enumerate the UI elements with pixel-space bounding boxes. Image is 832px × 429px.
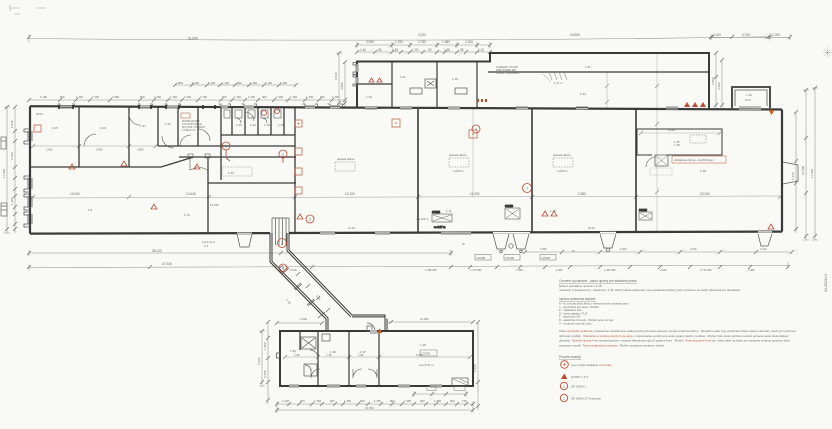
- svg-text:1.400: 1.400: [250, 81, 257, 85]
- svg-text:10.9: 10.9: [745, 98, 751, 102]
- svg-text:1.760: 1.760: [200, 95, 207, 99]
- svg-text:1.400: 1.400: [222, 81, 229, 85]
- svg-text:1.465 180: 1.465 180: [604, 268, 616, 272]
- small gray details: [210, 203, 595, 253]
- svg-text:900: 900: [360, 399, 365, 403]
- svg-text:C022B: C022B: [639, 208, 647, 212]
- svg-text:1.100: 1.100: [234, 95, 241, 99]
- main building outer walls: [30, 106, 782, 233]
- dimension labels top: [188, 33, 780, 52]
- svg-text:2.380: 2.380: [112, 95, 119, 99]
- svg-text:1: 1: [563, 384, 565, 388]
- svg-text:2.660: 2.660: [46, 148, 53, 152]
- svg-text:1.400: 1.400: [184, 95, 191, 99]
- red triangles row near hall 3 top: [684, 102, 706, 107]
- svg-text:6.270: 6.270: [416, 353, 423, 357]
- svg-text:obmedzi - Montaz opravy 4 sa v: obmedzi - Montaz opravy 4 sa vyrobnej pl…: [559, 339, 790, 343]
- svg-text:1.41: 1.41: [250, 123, 256, 127]
- hall divider walls: [418, 109, 636, 233]
- svg-text:C022B: C022B: [506, 256, 515, 260]
- svg-text:1.100: 1.100: [208, 81, 215, 85]
- annex corner hatch box: [452, 378, 468, 386]
- svg-text:1.100: 1.100: [290, 95, 297, 99]
- svg-text:cca 97 m: cca 97 m: [453, 169, 465, 173]
- red annotation text block bottom right: [559, 279, 741, 325]
- dimension line: wing upper row: [355, 42, 492, 48]
- svg-text:1.07: 1.07: [140, 124, 146, 128]
- svg-text:21.050: 21.050: [420, 317, 429, 321]
- dimension line: top-right segments: [709, 34, 792, 40]
- svg-text:16.580: 16.580: [570, 33, 580, 37]
- svg-text:5.465: 5.465: [473, 364, 477, 372]
- svg-text:Pouzite znacky:: Pouzite znacky:: [559, 355, 581, 359]
- room number labels: [36, 65, 752, 367]
- svg-text:2.400: 2.400: [620, 247, 627, 251]
- top wall window openings: [60, 106, 761, 109]
- wing outer walls: [357, 53, 709, 108]
- svg-text:38.120: 38.120: [152, 249, 162, 253]
- svg-text:900: 900: [420, 399, 425, 403]
- red triangle markers on walls: [69, 110, 775, 333]
- svg-text:2.940: 2.940: [366, 40, 374, 44]
- svg-text:1.8: 1.8: [88, 208, 93, 212]
- svg-text:POZOR NA SIET: POZOR NA SIET: [182, 120, 200, 123]
- svg-text:23.100: 23.100: [700, 192, 710, 196]
- svg-text:obkladova dielna - cca 500 pra: obkladova dielna - cca 500 prac: [674, 158, 714, 162]
- svg-text:900: 900: [60, 95, 65, 99]
- svg-text:1.43: 1.43: [278, 123, 284, 127]
- left margin small symbols: [1, 137, 7, 216]
- bottom dimension labels: [70, 192, 767, 272]
- hatched door boxes in halls: [432, 208, 652, 222]
- dimension line: mid window row: [173, 83, 298, 87]
- svg-text:13.440: 13.440: [70, 192, 80, 196]
- svg-text:2.100: 2.100: [290, 268, 297, 272]
- svg-text:47.040: 47.040: [162, 262, 172, 266]
- svg-text:C022B: C022B: [542, 256, 551, 260]
- svg-text:900: 900: [262, 95, 267, 99]
- svg-text:1.450: 1.450: [434, 399, 441, 403]
- svg-text:1.4: 1.4: [204, 244, 208, 248]
- svg-text:90: 90: [428, 48, 432, 52]
- svg-text:1.200: 1.200: [263, 342, 267, 350]
- svg-text:OSADIT ZARUBNU: OSADIT ZARUBNU: [496, 71, 519, 75]
- svg-text:1: 1: [563, 396, 565, 400]
- svg-text:23.10: 23.10: [588, 226, 595, 230]
- svg-text:1.21: 1.21: [400, 75, 406, 79]
- svg-text:2.400: 2.400: [556, 268, 563, 272]
- legend item 2 triangle: [561, 374, 588, 380]
- svg-text:95: 95: [460, 48, 464, 52]
- window on wing west wall: [356, 64, 358, 84]
- svg-text:1.48: 1.48: [700, 169, 706, 173]
- svg-text:1.06: 1.06: [100, 126, 106, 130]
- corridor walls: [270, 233, 387, 332]
- mid section walls: [179, 107, 296, 233]
- svg-text:2.100: 2.100: [10, 152, 14, 160]
- svg-text:2.550: 2.550: [578, 192, 586, 196]
- svg-text:2.140: 2.140: [760, 247, 767, 251]
- svg-text:51.540: 51.540: [188, 37, 198, 41]
- svg-text:spravnom vyrobil. Tento nezabu: spravnom vyrobil. Tento nezabudnut oprav…: [559, 343, 665, 347]
- dimension labels mid rows: [40, 81, 339, 99]
- vertical dimension left of wing: [336, 51, 347, 107]
- svg-text:1.30: 1.30: [228, 171, 234, 175]
- annex fixtures: [301, 334, 330, 376]
- svg-text:1.465 180: 1.465 180: [425, 268, 437, 272]
- hall4 inner rect dim: [639, 128, 722, 144]
- svg-text:C022B: C022B: [505, 204, 513, 208]
- svg-text:1.050: 1.050: [540, 247, 547, 251]
- interior halls dimension chain: [31, 195, 782, 199]
- svg-text:OK W200 1T hmotnosti: OK W200 1T hmotnosti: [571, 397, 601, 401]
- svg-text:1.37: 1.37: [360, 350, 366, 354]
- hall 4 interior room: [637, 129, 722, 175]
- door jambs on top wall: [59, 105, 215, 109]
- annex entry door: [367, 323, 377, 334]
- svg-text:4.700: 4.700: [742, 33, 750, 37]
- vertical dimension right of wing: [714, 51, 724, 109]
- svg-text:1.100: 1.100: [92, 95, 99, 99]
- C022B boxes above bottom dimension: [475, 255, 556, 261]
- bottom dimension line 38.120: [27, 250, 453, 256]
- svg-text:2.950: 2.950: [96, 148, 103, 152]
- svg-text:2.455: 2.455: [263, 370, 267, 378]
- svg-text:ZVODY c 1 P: ZVODY c 1 P: [571, 375, 588, 379]
- svg-text:2.100: 2.100: [713, 33, 721, 37]
- svg-text:2.320: 2.320: [465, 40, 473, 44]
- red small text block in wing: [496, 65, 519, 75]
- svg-text:1.450: 1.450: [344, 399, 351, 403]
- svg-text:1.450: 1.450: [374, 399, 381, 403]
- svg-text:900: 900: [237, 81, 242, 85]
- svg-text:2.500: 2.500: [300, 317, 307, 321]
- double door to hall 1.13: [188, 154, 210, 170]
- svg-text:900: 900: [330, 399, 335, 403]
- door swings on south wall: [237, 234, 772, 253]
- svg-text:1.46: 1.46: [674, 140, 680, 144]
- svg-text:1.47: 1.47: [585, 65, 591, 69]
- svg-text:1.845: 1.845: [10, 120, 14, 128]
- dim cluster under annex right: [412, 387, 468, 398]
- annex interior walls: [300, 331, 379, 386]
- annex left wall tick: [277, 353, 281, 358]
- svg-text:11.330: 11.330: [470, 192, 480, 196]
- svg-text:7.470: 7.470: [791, 172, 795, 180]
- svg-text:900: 900: [320, 95, 325, 99]
- svg-text:4.200: 4.200: [717, 82, 721, 90]
- svg-text:1.40: 1.40: [360, 48, 366, 52]
- svg-text:1.500: 1.500: [334, 72, 338, 80]
- svg-text:DO VYKR. OTVOROV: DO VYKR. OTVOROV: [182, 127, 206, 129]
- svg-text:12.10: 12.10: [348, 226, 355, 230]
- red marks at wall x478 top: [477, 99, 487, 102]
- wing small fixtures: [410, 79, 467, 94]
- corridor window ticks: [281, 267, 325, 318]
- svg-text:1.465: 1.465: [516, 268, 523, 272]
- annex door arcs: [311, 369, 377, 378]
- annex bottom dimension rows: [275, 401, 475, 413]
- svg-text:1.10: 1.10: [478, 48, 484, 52]
- svg-text:1.39: 1.39: [290, 349, 296, 353]
- svg-text:1.38: 1.38: [420, 343, 426, 347]
- red vertical drawing number at right edge: [824, 273, 828, 292]
- svg-text:1.40: 1.40: [236, 123, 242, 127]
- svg-text:1.380: 1.380: [442, 40, 450, 44]
- svg-text:11.345: 11.345: [810, 169, 814, 178]
- svg-text:10.900: 10.900: [801, 165, 805, 175]
- legend item 1 circle-dot: [561, 361, 612, 369]
- svg-text:VYP. ROZVODY EL: VYP. ROZVODY EL: [182, 124, 203, 126]
- svg-text:pletacia dielna: pletacia dielna: [337, 157, 355, 161]
- svg-text:900: 900: [450, 399, 455, 403]
- left vertical dimension chains: [4, 105, 10, 233]
- dimension line: wing lower row: [355, 50, 492, 54]
- svg-text:WC/S: WC/S: [36, 112, 43, 116]
- svg-text:1.30: 1.30: [444, 48, 450, 52]
- annex interior dimension chain: [283, 355, 472, 359]
- bottom dimension segment right: [523, 250, 794, 254]
- svg-text:1.000: 1.000: [772, 33, 780, 37]
- svg-text:6.000: 6.000: [668, 128, 675, 132]
- legend item 4 circle 1b: [560, 394, 601, 401]
- right-side vertical dimensions: [794, 86, 818, 240]
- svg-text:miestnost 1 stavajuce byt - mi: miestnost 1 stavajuce byt - miestnost c …: [559, 288, 741, 292]
- svg-text:2.100: 2.100: [690, 247, 697, 251]
- red triangles near hall bottom centre: [542, 211, 557, 216]
- legend item 3 circle 1: [560, 382, 586, 389]
- svg-text:04-2013-LV: 04-2013-LV: [824, 273, 828, 292]
- svg-text:V CELKU 2X: V CELKU 2X: [182, 130, 196, 132]
- left wall windows: [24, 129, 32, 227]
- svg-text:5.465: 5.465: [257, 357, 261, 365]
- svg-text:4.000: 4.000: [340, 82, 344, 90]
- room 1.16 protrusion top right: [732, 87, 770, 108]
- svg-text:cc 3.97 m: cc 3.97 m: [434, 225, 445, 229]
- door on east wall: [783, 162, 798, 184]
- red squares symbols in halls: [34, 119, 477, 194]
- svg-text:21.050: 21.050: [365, 406, 374, 410]
- svg-text:1.400: 1.400: [306, 95, 313, 99]
- svg-text:1.100: 1.100: [40, 95, 47, 99]
- svg-text:1.05: 1.05: [52, 126, 58, 130]
- svg-text:800: 800: [178, 81, 183, 85]
- svg-text:1.760: 1.760: [314, 399, 321, 403]
- annex dimension labels: [282, 317, 467, 410]
- svg-text:1.17: 1.17: [550, 209, 556, 213]
- svg-text:1.45: 1.45: [392, 48, 398, 52]
- svg-text:1.400: 1.400: [248, 95, 255, 99]
- svg-text:1.770 180: 1.770 180: [700, 268, 712, 272]
- svg-text:1.22: 1.22: [165, 122, 171, 126]
- svg-text:1.20: 1.20: [366, 95, 372, 99]
- svg-text:1.400: 1.400: [154, 95, 161, 99]
- svg-text:2.100: 2.100: [282, 399, 289, 403]
- svg-text:1.42: 1.42: [264, 123, 270, 127]
- svg-text:1.44: 1.44: [580, 92, 586, 96]
- red label box hall4: [672, 156, 726, 163]
- axis lines through halls: [473, 53, 659, 233]
- svg-text:11.345: 11.345: [2, 169, 6, 178]
- svg-text:pletacia dielna: pletacia dielna: [449, 153, 467, 157]
- svg-text:13.90: 13.90: [418, 33, 426, 37]
- dashed label box room 1.30: [222, 167, 252, 176]
- svg-text:C022B: C022B: [432, 210, 440, 214]
- svg-text:C022B: C022B: [477, 256, 486, 260]
- svg-text:13.440: 13.440: [210, 203, 219, 207]
- svg-text:4.950: 4.950: [711, 77, 715, 85]
- annex bottom windows: [289, 385, 442, 387]
- svg-text:1.19: 1.19: [452, 77, 458, 81]
- svg-text:1.400: 1.400: [276, 95, 283, 99]
- svg-text:Ciele vyrobneho poldomia i pok: Ciele vyrobneho poldomia i pokracovan st…: [559, 329, 796, 333]
- toilet fixtures mid section: [224, 110, 281, 123]
- svg-text:uprava vybavenia kapacit:: uprava vybavenia kapacit:: [559, 297, 596, 301]
- svg-text:1.16: 1.16: [746, 93, 752, 97]
- svg-text:Cervene vyznacene - plane upra: Cervene vyznacene - plane upravy pre sta…: [559, 279, 637, 283]
- svg-text:12.100: 12.100: [345, 192, 355, 196]
- svg-text:1.400: 1.400: [280, 81, 287, 85]
- dashed label boxes in halls: [335, 135, 706, 171]
- svg-text:cca 97 m: cca 97 m: [557, 169, 569, 173]
- svg-text:1.75: 1.75: [412, 48, 418, 52]
- svg-text:900: 900: [390, 399, 395, 403]
- ramp label: [543, 74, 563, 85]
- dimension line: above top wall: [27, 98, 347, 102]
- svg-text:2.100: 2.100: [660, 268, 667, 272]
- dimension line: overall top length: [27, 33, 772, 43]
- red circled markers: [222, 109, 532, 273]
- window sills above top wall: [58, 104, 343, 107]
- svg-text:cca 2.42 m: cca 2.42 m: [202, 240, 216, 244]
- svg-text:1.36: 1.36: [330, 350, 336, 354]
- svg-text:V - vnutorne rozvody vody: V - vnutorne rozvody vody: [559, 321, 592, 325]
- svg-text:2.760: 2.760: [418, 40, 426, 44]
- wing interior walls: [357, 62, 709, 107]
- svg-text:pletacia dielna: pletacia dielna: [553, 153, 571, 157]
- red legend heading: [559, 355, 581, 359]
- dimension chain inside top-row rooms: [31, 144, 158, 148]
- svg-text:900: 900: [300, 399, 305, 403]
- svg-text:1.14: 1.14: [446, 209, 452, 213]
- svg-text:900: 900: [222, 95, 227, 99]
- svg-text:2.880: 2.880: [137, 148, 144, 152]
- stair at south exit: [272, 218, 289, 245]
- svg-text:cca 320 m: cca 320 m: [416, 217, 429, 221]
- svg-text:1.770 180: 1.770 180: [470, 268, 482, 272]
- bottom wall openings and doors: [237, 232, 772, 233]
- svg-text:1.400: 1.400: [332, 95, 339, 99]
- svg-text:740: 740: [462, 399, 467, 403]
- svg-text:1.100: 1.100: [265, 81, 272, 85]
- svg-text:1.100: 1.100: [170, 95, 177, 99]
- annex outer walls: [280, 331, 473, 386]
- svg-text:90: 90: [378, 48, 382, 52]
- svg-text:1.17 m: 1.17 m: [554, 81, 563, 85]
- top-left corner registration marks: [10, 5, 46, 14]
- svg-text:1.200: 1.200: [10, 197, 14, 205]
- door arcs top rooms: [84, 112, 254, 148]
- red small text block in rooms 1.23: [181, 113, 206, 132]
- svg-text:cca 5.97 m: cca 5.97 m: [419, 363, 434, 367]
- vertical dimension labels: [2, 72, 814, 378]
- top row interior walls: [30, 107, 295, 167]
- red triangles on wing: [369, 78, 382, 82]
- svg-text:1.450: 1.450: [404, 399, 411, 403]
- svg-text:1.760: 1.760: [395, 40, 403, 44]
- annex left and right vertical dimensions: [259, 320, 480, 410]
- wing ramp hatch: [549, 72, 567, 80]
- svg-text:1.400: 1.400: [76, 95, 83, 99]
- top-right corner mark: [823, 47, 832, 58]
- corridor small dimension ticks: [296, 272, 330, 312]
- svg-text:13.440: 13.440: [186, 192, 196, 196]
- svg-text:OK W200 1: OK W200 1: [571, 385, 586, 389]
- svg-text:1.465: 1.465: [748, 268, 755, 272]
- annex C022B box: [420, 350, 437, 356]
- svg-text:1.400: 1.400: [192, 81, 199, 85]
- main top wall under wing: [357, 108, 782, 110]
- annex top dimension: [275, 320, 475, 325]
- svg-text:nove zvisle instalacie a rozvo: nove zvisle instalacie a rozvody: [571, 363, 612, 367]
- bottom dimension line 47.040: [27, 262, 790, 270]
- svg-text:900: 900: [140, 95, 145, 99]
- svg-text:1.85: 1.85: [294, 353, 300, 357]
- svg-text:1.13: 1.13: [184, 213, 190, 217]
- svg-text:udrzovat vyrobky - Montazne a: udrzovat vyrobky - Montazne a vyrobne pl…: [559, 334, 790, 338]
